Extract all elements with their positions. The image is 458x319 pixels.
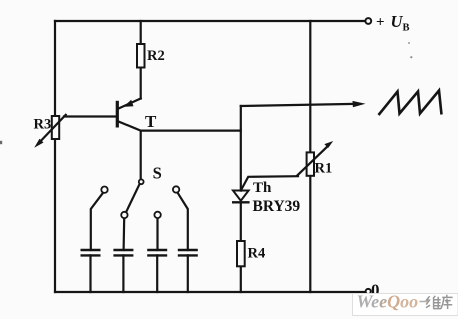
- svg-text:R1: R1: [315, 161, 333, 177]
- svg-text:S: S: [153, 164, 162, 183]
- svg-text:T: T: [145, 112, 157, 131]
- svg-text:Th: Th: [253, 180, 272, 196]
- svg-text:+: +: [376, 15, 385, 31]
- svg-text:B: B: [403, 23, 410, 34]
- svg-text:R4: R4: [248, 246, 266, 262]
- svg-text:R3: R3: [34, 117, 52, 133]
- svg-text:WeeQoo: WeeQoo: [357, 292, 419, 312]
- svg-text:BRY39: BRY39: [253, 198, 301, 215]
- svg-text:R2: R2: [147, 48, 165, 64]
